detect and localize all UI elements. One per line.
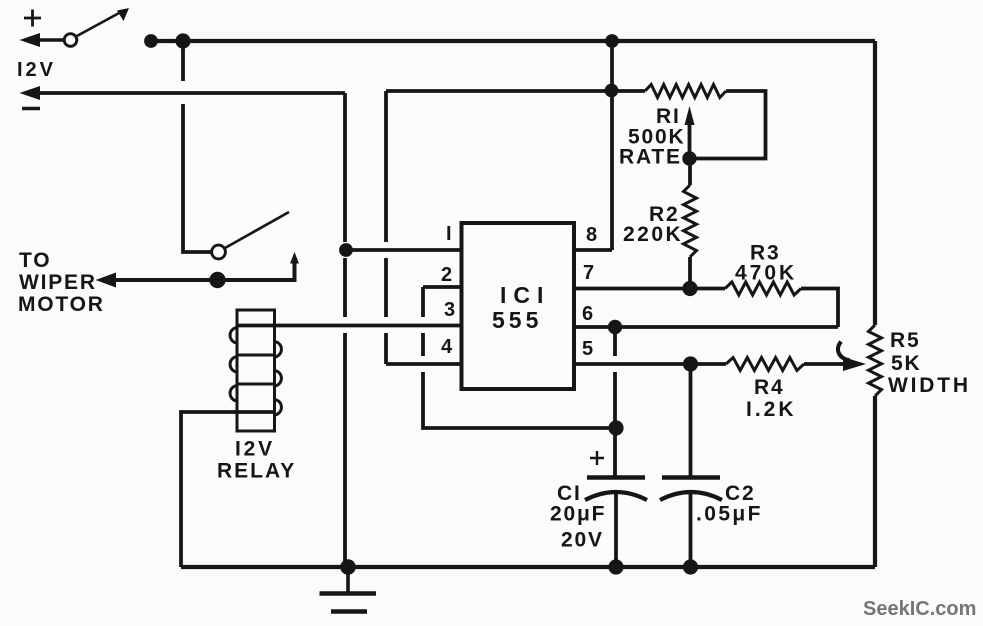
label TO WIPER MOTOR [18, 249, 105, 316]
svg-text:I2V: I2V [235, 438, 275, 461]
timer IC1 555 box [462, 223, 575, 389]
relay contact switch S2 blade [225, 212, 289, 248]
svg-text:8: 8 [586, 224, 597, 246]
svg-text:TO: TO [19, 249, 51, 272]
resistor R4 1.2K [726, 358, 846, 371]
wire: pin 7 to R2 bottom [574, 287, 725, 291]
svg-text:RATE: RATE [619, 146, 682, 169]
wire: pin 2 loop down to C1 top (crossover gaps at pin3, pin4 wires) [423, 287, 616, 428]
label R5 5K WIDTH [888, 329, 971, 397]
svg-text:WIDTH: WIDTH [888, 374, 971, 397]
battery plus terminal [24, 10, 41, 27]
svg-text:470K: 470K [735, 262, 797, 285]
svg-text:3: 3 [444, 299, 455, 321]
junction dot: R1 left / +V node [605, 84, 619, 98]
wire: pin 8 to top rail [574, 41, 612, 250]
wire: relay coil bottom to ground rail corner [181, 412, 274, 567]
junction dot: ground rail / ground symbol [340, 559, 356, 575]
svg-text:R5: R5 [890, 329, 920, 352]
resistor R2 220K [684, 158, 697, 289]
svg-text:5: 5 [582, 338, 593, 360]
label R3 470K [735, 242, 797, 285]
svg-text:SeekIC.com: SeekIC.com [863, 598, 976, 620]
R1 wiper arrow [685, 106, 695, 158]
svg-text:4: 4 [441, 336, 453, 358]
svg-text:555: 555 [492, 307, 542, 333]
svg-text:R4: R4 [754, 376, 784, 399]
wire: +12V top rail [145, 39, 875, 43]
svg-text:ICI: ICI [500, 282, 550, 308]
capacitor C1 plus mark [590, 451, 604, 465]
wire: top rail to relay contact switch (crossover gap at negative rail) [183, 47, 211, 252]
svg-text:20μF: 20μF [550, 503, 606, 526]
wire: pin 4 reset up and over to +V line (crossover gaps at pin1, pin3 wires) [386, 91, 612, 364]
svg-text:.05μF: .05μF [696, 503, 763, 526]
junction dot: R1 wiper / R2 top [682, 151, 696, 165]
label R2 220K [623, 203, 683, 246]
junction dot: pin7 / R2 / R3 [682, 281, 697, 296]
svg-text:220K: 220K [623, 223, 683, 246]
wire: right rail from top rail down to R5 [873, 41, 877, 325]
svg-text:WIPER: WIPER [19, 271, 97, 294]
svg-text:I2V: I2V [17, 59, 56, 81]
junction dot A (top rail left) [144, 34, 158, 48]
svg-text:RELAY: RELAY [217, 460, 296, 483]
svg-text:I: I [446, 223, 452, 245]
relay K1 coil body [230, 310, 281, 431]
junction dot: C1 at ground rail [608, 559, 623, 574]
wire: pin 1 to ground line [346, 248, 461, 252]
wire: pin 3 output to relay coil top [237, 324, 461, 328]
svg-text:6: 6 [582, 303, 593, 325]
svg-text:2: 2 [441, 264, 452, 286]
wire: pin 5 to R4 [574, 362, 726, 366]
junction dot: pin2 loop joins C1 wire [608, 420, 623, 435]
junction dot: pin5 / R4 / C2 [683, 356, 698, 371]
wire: ground bottom rail [181, 565, 875, 569]
junction dot: pin1/ground vertical [339, 243, 353, 257]
label 12V RELAY [217, 438, 296, 483]
potentiometer R5 5K [869, 325, 882, 396]
ground symbol [320, 567, 377, 612]
junction dot B (top rail, relay switch branch) [175, 33, 190, 48]
svg-text:MOTOR: MOTOR [18, 293, 105, 316]
battery minus terminal [22, 107, 40, 111]
svg-text:7: 7 [583, 262, 594, 284]
junction dot: pin8 vertical at top rail [605, 34, 619, 48]
wire: to wiper motor (left arrow, right end turns up with arrow) [96, 252, 300, 288]
svg-text:20V: 20V [561, 529, 604, 552]
junction dot: wiper motor wire [209, 272, 225, 288]
switch S1 blade [76, 8, 129, 37]
label C1 20uF 20V [550, 482, 606, 552]
wire: right rail from R5 down to ground rail [873, 396, 877, 567]
label C2 .05uF [696, 482, 763, 526]
wire: pin6 node down to C1 (crossover gap at pin5 wire) [613, 334, 617, 477]
junction dot: pin 6 node [608, 320, 622, 334]
switch S1 contact circle [64, 34, 77, 47]
relay contact switch S2 circle [212, 245, 226, 259]
label R1 500K RATE [619, 105, 685, 169]
svg-text:5K: 5K [891, 352, 921, 375]
wire: pin 6 threshold line to R3 loop [574, 325, 838, 329]
svg-text:I.2K: I.2K [746, 398, 797, 421]
wire: negative supply rail (arrow left, runs right then down to ground rail) [20, 86, 346, 567]
resistor R1 500K (rheostat) [612, 85, 766, 159]
resistor R3 470K [725, 282, 838, 327]
R5 wiper arrow with curve [838, 342, 866, 372]
capacitor C1 20uF [585, 478, 647, 568]
label R4 1.2K [746, 376, 797, 421]
junction dot: C2 at ground rail [683, 559, 698, 574]
switch S1 lead arrow [20, 33, 65, 47]
capacitor C2 .05uF [660, 364, 722, 567]
